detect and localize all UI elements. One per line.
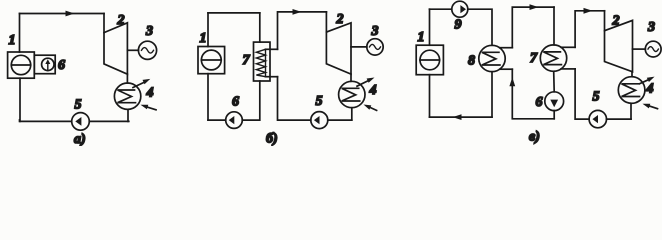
turbine T2 bbox=[104, 23, 127, 74]
condenser C4 bbox=[339, 81, 365, 107]
wire: condenser to bottom bbox=[630, 103, 632, 119]
H7 bottom jog bbox=[561, 68, 575, 70]
wire: bottom right segment bbox=[607, 118, 632, 120]
svg-text:5: 5 bbox=[593, 90, 600, 105]
coil bottom jog to right pipe bbox=[266, 76, 278, 78]
wire: bottom wire of left loop bbox=[430, 116, 493, 118]
H8 bottom jog bbox=[500, 68, 513, 70]
svg-text:5: 5 bbox=[75, 98, 82, 113]
svg-text:4: 4 bbox=[369, 83, 377, 98]
svg-text:1: 1 bbox=[200, 31, 207, 46]
wire: left loop top right bbox=[468, 9, 492, 45]
pump P5 bbox=[72, 113, 90, 131]
cooling in arrow bbox=[148, 107, 156, 110]
pump P5 bbox=[311, 112, 328, 129]
cooling in arrow bbox=[371, 108, 377, 111]
pump P6 bbox=[226, 112, 243, 129]
pump P6 (down) bbox=[545, 92, 564, 111]
wire: down into HX7 bbox=[553, 7, 555, 45]
wire: left pipe upper (into boiler 1) bbox=[19, 14, 21, 53]
fan circle 6 with up arrow bbox=[42, 58, 54, 70]
wire: condenser to bottom bbox=[127, 109, 129, 121]
svg-text:3: 3 bbox=[647, 20, 655, 35]
flow arrow on right top wire bbox=[584, 8, 593, 14]
wire: down into turbine bbox=[103, 14, 105, 33]
flow arrow on top wire (right) bbox=[66, 11, 75, 17]
H7 top jog bbox=[561, 46, 575, 48]
wire: boiler down to bottom bbox=[429, 75, 431, 117]
wire: bottom to riser bbox=[278, 77, 311, 120]
wire: right loop riser bbox=[575, 11, 604, 48]
cooling in arrow bbox=[650, 106, 658, 109]
wire: left pipe into boiler bbox=[207, 13, 209, 47]
svg-text:1: 1 bbox=[418, 30, 425, 45]
svg-text:7: 7 bbox=[243, 53, 251, 68]
wire: pump 6 to bottom bbox=[553, 111, 555, 119]
wire: turbine to generator bbox=[351, 46, 367, 48]
wire: turbine to generator bbox=[127, 49, 138, 51]
wire: bottom left to riser bbox=[575, 69, 589, 119]
wire: bottom right segment bbox=[328, 119, 352, 121]
coil zigzag bbox=[256, 49, 265, 76]
svg-text:1: 1 bbox=[9, 33, 16, 48]
svg-text:4: 4 bbox=[646, 82, 654, 97]
svg-text:7: 7 bbox=[530, 51, 538, 66]
pump P9 bbox=[452, 1, 468, 17]
heat exchanger H8 bbox=[479, 45, 505, 71]
turbine T2 bbox=[605, 20, 633, 71]
generator G3 bbox=[367, 39, 383, 55]
svg-text:в): в) bbox=[529, 130, 540, 145]
coil top jog to right pipe bbox=[266, 48, 278, 50]
wire: HX7 down to pump 6 bbox=[553, 71, 556, 92]
heat exchanger H7 bbox=[540, 45, 566, 71]
wire: middle loop bottom bbox=[512, 69, 554, 119]
svg-text:б): б) bbox=[266, 132, 278, 147]
wire: left loop top bbox=[208, 12, 260, 14]
svg-text:3: 3 bbox=[145, 24, 153, 39]
svg-text:8: 8 bbox=[468, 54, 475, 69]
wire: right loop riser bbox=[278, 12, 327, 49]
flow arrow on middle top wire bbox=[530, 4, 539, 10]
generator G3 bbox=[645, 41, 661, 57]
boiler B1 bbox=[198, 47, 225, 74]
wire: down into turbine bbox=[604, 11, 606, 31]
wire: up to HX8 bbox=[491, 72, 493, 117]
flow arrow on top wire bbox=[293, 9, 302, 15]
wire: bottom to heater bbox=[242, 81, 259, 120]
flow arrow up on middle left pipe bbox=[509, 77, 515, 86]
wire: turbine to condenser bbox=[350, 74, 352, 81]
svg-text:6: 6 bbox=[58, 58, 65, 73]
cooling out arrow bbox=[133, 83, 144, 88]
svg-text:2: 2 bbox=[612, 14, 620, 29]
wire: turbine to generator bbox=[633, 48, 646, 50]
wire: left loop top left bbox=[430, 8, 452, 10]
boiler B1 bbox=[416, 45, 443, 74]
boiler B1 (box with circle) bbox=[8, 52, 35, 78]
cooling out arrow bbox=[357, 81, 368, 86]
wire: turbine to condenser bbox=[631, 72, 633, 77]
wire: top wire of loop a bbox=[20, 13, 105, 15]
turbine T2 bbox=[326, 23, 351, 74]
pump P5 bbox=[589, 110, 606, 127]
wire: left pipe into boiler bbox=[429, 9, 431, 45]
svg-text:9: 9 bbox=[455, 18, 462, 33]
wire: heater left pipe down from top bbox=[259, 13, 261, 42]
wire: condenser to bottom bbox=[351, 108, 353, 120]
svg-text:4: 4 bbox=[146, 86, 154, 101]
svg-text:2: 2 bbox=[336, 12, 344, 27]
svg-text:а): а) bbox=[74, 132, 86, 146]
wire: bottom left segment bbox=[20, 120, 72, 121]
svg-text:5: 5 bbox=[316, 94, 323, 109]
fan box 6 bbox=[34, 55, 55, 73]
flow arrow left on bottom wire bbox=[453, 114, 462, 120]
wire: bottom right segment bbox=[89, 120, 129, 122]
wire: left pipe lower (boiler to bottom) bbox=[19, 78, 21, 121]
svg-text:6: 6 bbox=[232, 95, 239, 110]
wire: turbine to condenser bbox=[126, 74, 128, 83]
wire: bottom left segment bbox=[208, 119, 226, 121]
wire: middle loop riser bbox=[512, 7, 554, 48]
heater H7 (rect with coil) bbox=[254, 42, 271, 81]
svg-text:6: 6 bbox=[536, 95, 543, 110]
wire: boiler down to bottom bbox=[207, 74, 209, 120]
wire: down into turbine bbox=[325, 12, 327, 32]
condenser C4 bbox=[618, 77, 645, 104]
svg-text:3: 3 bbox=[371, 24, 379, 39]
H8 top jog bbox=[500, 47, 513, 49]
generator G3 bbox=[138, 41, 156, 59]
cooling out arrow bbox=[640, 80, 649, 84]
condenser C4 bbox=[114, 83, 140, 109]
svg-text:2: 2 bbox=[117, 13, 125, 28]
